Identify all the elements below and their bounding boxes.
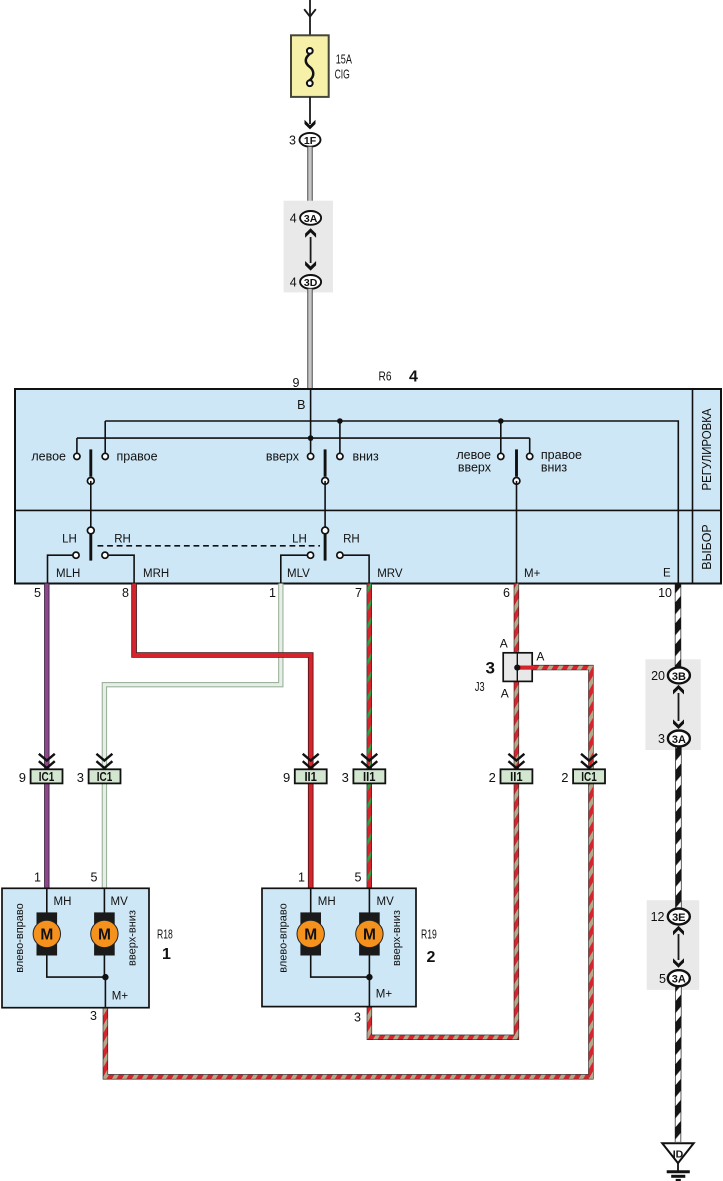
contact vverh bbox=[308, 453, 314, 459]
svg-text:12: 12 bbox=[651, 910, 665, 924]
svg-text:A: A bbox=[501, 686, 509, 700]
fuse terminal bottom bbox=[307, 80, 313, 86]
svg-text:влево-вправо: влево-вправо bbox=[278, 903, 290, 973]
ground symbol ID bbox=[662, 1143, 694, 1180]
motor unit R19 body bbox=[262, 888, 416, 1006]
node B feed wire bbox=[310, 389, 312, 456]
section divider bbox=[15, 509, 721, 511]
selector switch 1 lever bbox=[89, 534, 92, 560]
fuse terminal top bbox=[307, 48, 313, 54]
svg-text:3D: 3D bbox=[304, 277, 318, 289]
wire MLV pale green bbox=[104, 584, 280, 890]
bus line B (feed) bbox=[77, 437, 530, 439]
switch 1 lever bbox=[89, 449, 92, 476]
connector II1 pin 3 bbox=[342, 769, 386, 785]
junction dot vniz bbox=[337, 418, 343, 424]
svg-text:3: 3 bbox=[658, 732, 665, 746]
wire vniz terminal up bbox=[339, 421, 341, 456]
svg-text:вверх-вниз: вверх-вниз bbox=[126, 910, 138, 966]
switch 2 lever bbox=[324, 449, 327, 476]
svg-text:2: 2 bbox=[489, 770, 496, 785]
svg-text:3: 3 bbox=[342, 770, 349, 785]
gray block 3B/3A background bbox=[645, 659, 700, 750]
selector switch 2 pivot bbox=[322, 527, 329, 534]
motor MV of R19 bbox=[356, 912, 383, 955]
connector oval 1F pin 3 bbox=[289, 133, 320, 147]
arrowhead on feed wire bbox=[304, 9, 316, 16]
svg-text:E: E bbox=[663, 568, 671, 580]
svg-text:R6: R6 bbox=[379, 370, 392, 384]
svg-text:LH: LH bbox=[292, 534, 307, 546]
svg-text:LH: LH bbox=[62, 534, 77, 546]
svg-text:влево-вправо: влево-вправо bbox=[14, 903, 26, 973]
connector II1 pin 2 bbox=[489, 769, 533, 785]
svg-text:M: M bbox=[98, 926, 111, 943]
fuse element S-curve bbox=[306, 54, 314, 80]
connector block 3A/3D background bbox=[284, 201, 333, 293]
svg-text:вверх-вниз: вверх-вниз bbox=[391, 910, 403, 966]
connector IC1 pin 2 bbox=[561, 769, 605, 785]
svg-text:M: M bbox=[304, 926, 317, 943]
svg-text:M: M bbox=[363, 926, 376, 943]
arrow up toward 3B bbox=[673, 685, 684, 695]
bus line A (earth return) bbox=[105, 421, 678, 584]
svg-text:7: 7 bbox=[355, 586, 362, 600]
selector switch 1 pivot bbox=[87, 527, 94, 534]
output wire MRV bbox=[340, 555, 369, 583]
svg-text:RH: RH bbox=[114, 534, 131, 546]
arrow down toward 3A bbox=[673, 719, 684, 729]
wire pravoe terminal up bbox=[104, 421, 106, 456]
contact LH 1 bbox=[73, 552, 79, 558]
output wire MLV bbox=[281, 555, 311, 583]
svg-text:M+: M+ bbox=[376, 989, 393, 1001]
svg-text:3: 3 bbox=[90, 1009, 97, 1023]
svg-text:5: 5 bbox=[34, 586, 41, 600]
svg-text:10: 10 bbox=[658, 586, 672, 600]
output wire MRH bbox=[105, 555, 134, 583]
svg-text:MV: MV bbox=[377, 896, 395, 908]
svg-text:5: 5 bbox=[355, 871, 362, 885]
svg-text:вниз: вниз bbox=[353, 450, 380, 464]
arrow down toward 3A bbox=[673, 958, 684, 968]
svg-text:2: 2 bbox=[427, 949, 436, 966]
svg-text:IC1: IC1 bbox=[97, 770, 113, 784]
wire between 3B and 3A bbox=[678, 693, 680, 721]
contact levoe bbox=[74, 453, 80, 459]
svg-text:1: 1 bbox=[269, 586, 276, 600]
svg-text:B: B bbox=[297, 398, 305, 412]
switch 3 lever bbox=[515, 449, 518, 476]
svg-text:II1: II1 bbox=[363, 770, 376, 784]
svg-text:вниз: вниз bbox=[541, 461, 568, 475]
svg-text:1F: 1F bbox=[304, 135, 317, 147]
wire between 3E and 3A bbox=[678, 934, 680, 960]
svg-text:4: 4 bbox=[290, 275, 297, 289]
svg-text:5: 5 bbox=[659, 972, 666, 986]
contact pravoe bbox=[102, 453, 108, 459]
wire M+ down bbox=[516, 481, 518, 584]
wire MRV red/green bbox=[367, 584, 372, 890]
connector oval 3A2 pin 5 bbox=[659, 970, 690, 986]
svg-text:M: M bbox=[40, 926, 53, 943]
svg-text:вверх: вверх bbox=[458, 461, 492, 475]
svg-text:6: 6 bbox=[503, 586, 510, 600]
fuse 15A CIG body bbox=[291, 35, 329, 97]
svg-text:R18: R18 bbox=[157, 928, 173, 942]
svg-text:MLH: MLH bbox=[56, 568, 80, 580]
svg-text:8: 8 bbox=[122, 586, 129, 600]
svg-text:CIG: CIG bbox=[335, 66, 350, 81]
connector oval 3B pin 20 bbox=[651, 667, 690, 683]
svg-text:4: 4 bbox=[409, 369, 418, 386]
R18 junction dot bbox=[102, 974, 108, 980]
connector II1 pin 9 bbox=[283, 769, 327, 785]
wire between 3A and 3D bbox=[310, 237, 312, 263]
svg-text:J3: J3 bbox=[475, 680, 485, 694]
wire M+ branch red/tan to R18 bbox=[105, 668, 591, 1077]
motor MH of R19 bbox=[297, 912, 324, 955]
contact LH 2 bbox=[307, 552, 313, 558]
wire M+ red/tan main bbox=[369, 584, 516, 1038]
label column divider bbox=[692, 389, 694, 584]
wire MLH purple bbox=[44, 584, 49, 890]
svg-text:RH: RH bbox=[343, 534, 360, 546]
contact vniz bbox=[337, 453, 343, 459]
wire switch2 common to selector bbox=[324, 481, 326, 531]
svg-text:1: 1 bbox=[298, 871, 305, 885]
svg-text:5: 5 bbox=[91, 871, 98, 885]
contact levoe-vverh bbox=[498, 453, 504, 459]
wire: gray wire 3D to switch R6 pin 9 bbox=[307, 289, 313, 390]
svg-text:РЕГУЛИРОВКА: РЕГУЛИРОВКА bbox=[700, 408, 714, 491]
svg-text:A: A bbox=[536, 650, 544, 664]
connector oval 3E pin 12 bbox=[651, 909, 690, 925]
svg-text:MH: MH bbox=[318, 896, 336, 908]
svg-text:3E: 3E bbox=[672, 912, 685, 924]
svg-text:3A: 3A bbox=[672, 734, 686, 746]
connector J3 bbox=[503, 653, 533, 682]
gang dashed link bbox=[98, 545, 321, 547]
arrow up toward 3A bbox=[305, 228, 316, 238]
connector oval 3A pin 4 bbox=[290, 211, 321, 225]
svg-text:IC1: IC1 bbox=[39, 770, 55, 784]
svg-text:4: 4 bbox=[290, 211, 297, 225]
wire levoe terminal up bbox=[76, 438, 78, 456]
svg-text:3: 3 bbox=[486, 659, 495, 678]
svg-text:1: 1 bbox=[162, 946, 171, 963]
svg-text:3: 3 bbox=[289, 133, 296, 147]
svg-text:9: 9 bbox=[293, 376, 300, 390]
svg-text:II1: II1 bbox=[510, 770, 523, 784]
switch 1 common circle bbox=[87, 478, 94, 485]
svg-text:M+: M+ bbox=[112, 991, 129, 1003]
svg-text:ID: ID bbox=[673, 1149, 684, 1161]
svg-text:правое: правое bbox=[117, 450, 158, 464]
svg-text:MV: MV bbox=[111, 896, 129, 908]
wire pravoe-vniz terminal up bbox=[529, 438, 531, 456]
gray block 3E/3A background bbox=[647, 900, 700, 990]
mirror switch unit R6 body bbox=[15, 389, 721, 584]
wire: gray wire 1F to 3A bbox=[307, 147, 313, 212]
svg-text:M+: M+ bbox=[524, 568, 541, 580]
wire: fuse to connector 1F bbox=[309, 97, 311, 124]
svg-text:MLV: MLV bbox=[287, 568, 310, 580]
wire levoe-vverh terminal up bbox=[500, 421, 502, 456]
svg-text:MRV: MRV bbox=[377, 568, 403, 580]
svg-text:20: 20 bbox=[651, 669, 665, 683]
motor MH of R18 bbox=[33, 912, 60, 955]
svg-text:3: 3 bbox=[354, 1011, 361, 1025]
switch 2 common circle bbox=[322, 478, 329, 485]
svg-text:вверх: вверх bbox=[266, 450, 300, 464]
connector IC1 pin 3 bbox=[77, 769, 121, 785]
wire switch1 common to selector bbox=[90, 481, 92, 531]
svg-text:1: 1 bbox=[34, 871, 41, 885]
chevrons above connectors bbox=[39, 754, 597, 768]
svg-text:левое: левое bbox=[31, 450, 66, 464]
svg-text:ВЫБОР: ВЫБОР bbox=[700, 524, 714, 570]
wire E ground striped bbox=[675, 584, 682, 1142]
connector oval 3A pin 3 bbox=[658, 731, 690, 747]
svg-text:9: 9 bbox=[283, 770, 290, 785]
switch 3 common circle bbox=[513, 478, 520, 485]
svg-text:MH: MH bbox=[54, 896, 72, 908]
svg-text:3A: 3A bbox=[304, 213, 318, 225]
wire MRH red bbox=[134, 584, 311, 890]
contact pravoe-vniz bbox=[527, 453, 533, 459]
svg-text:2: 2 bbox=[561, 770, 568, 785]
R19 internal wires bbox=[311, 888, 370, 1006]
selector switch 2 lever bbox=[324, 534, 327, 560]
selector terminals and output wires MLH bbox=[48, 555, 77, 583]
svg-text:II1: II1 bbox=[304, 770, 317, 784]
connector oval 3D pin 4 bbox=[290, 275, 321, 289]
junction dot levoe-vverh bbox=[498, 418, 504, 424]
svg-text:15A: 15A bbox=[336, 52, 352, 67]
arrow down toward 3D bbox=[305, 261, 316, 271]
svg-text:9: 9 bbox=[19, 770, 26, 785]
R19 junction dot bbox=[366, 974, 372, 980]
wire: battery feed into fuse bbox=[309, 0, 311, 49]
connector IC1 pin 9 bbox=[19, 769, 63, 785]
arrow up toward 3E bbox=[673, 926, 684, 936]
contact RH 1 bbox=[102, 552, 108, 558]
motor unit R18 body bbox=[2, 888, 149, 1007]
arrow into connector 1F bbox=[305, 120, 316, 130]
svg-text:IC1: IC1 bbox=[581, 770, 597, 784]
svg-text:R19: R19 bbox=[421, 928, 437, 942]
R18 internal wires bbox=[47, 888, 106, 1007]
svg-text:MRH: MRH bbox=[143, 568, 169, 580]
svg-text:A: A bbox=[500, 637, 508, 651]
contact RH 2 bbox=[337, 552, 343, 558]
junction dot B bbox=[308, 435, 314, 441]
svg-text:3: 3 bbox=[77, 770, 84, 785]
svg-text:3A: 3A bbox=[672, 974, 686, 986]
svg-text:3B: 3B bbox=[672, 671, 686, 683]
motor MV of R18 bbox=[91, 912, 118, 955]
